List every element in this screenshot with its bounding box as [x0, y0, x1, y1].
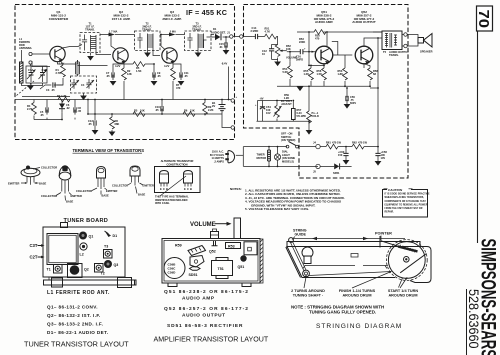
schematic chassis dashed border	[15, 5, 235, 140]
Q1 dot	[79, 232, 87, 240]
Q52 collector to T5	[364, 38, 382, 46]
svg-text:C59D: C59D	[168, 271, 177, 275]
svg-text:SD51: SD51	[333, 171, 340, 175]
svg-text:.05: .05	[78, 109, 82, 113]
diode D1 board symbol	[59, 100, 70, 113]
svg-text:470 1W: 470 1W	[332, 141, 341, 145]
svg-text:CONSTRUCTION: CONSTRUCTION	[167, 162, 188, 166]
detector return vertical	[228, 67, 230, 100]
electrolytic C54	[255, 101, 271, 122]
T3 resonating capacitor	[187, 33, 192, 49]
AC plug	[225, 151, 243, 163]
svg-text:NOTES:: NOTES:	[230, 187, 242, 191]
antenna coil L1	[21, 50, 23, 62]
resistor R51	[265, 27, 278, 45]
svg-text:TUNING GANG FULLY OPENED.: TUNING GANG FULLY OPENED.	[309, 310, 376, 315]
svg-text:STRINGING DIAGRAM: STRINGING DIAGRAM	[316, 323, 402, 330]
string line with arrows	[293, 238, 405, 240]
svg-text:(ON TIMER): (ON TIMER)	[281, 138, 296, 142]
wire J1 to J51	[233, 36, 252, 38]
transistor view 4	[112, 166, 154, 197]
drum dashed circle	[386, 240, 427, 281]
svg-text:TUNER BOARD: TUNER BOARD	[64, 218, 109, 224]
svg-text:COLLECTOR: COLLECTOR	[41, 194, 57, 198]
board top tab	[61, 223, 68, 228]
bias feed vertical	[308, 32, 310, 65]
drum solid circle	[388, 242, 425, 279]
power rail top	[320, 146, 326, 148]
transistor Q1	[50, 46, 65, 62]
svg-text:2ND I.F. AMP.: 2ND I.F. AMP.	[162, 17, 181, 21]
main ground	[308, 121, 310, 130]
wire battery to terminal	[215, 100, 231, 128]
T51 transformer	[212, 258, 233, 279]
svg-text:.05: .05	[40, 113, 44, 117]
svg-text:C1B: C1B	[42, 68, 47, 72]
pointer marker	[379, 236, 381, 248]
chassis bottom detail	[303, 266, 388, 269]
T2 secondary to Q3	[153, 48, 160, 56]
svg-text:B: B	[190, 187, 192, 191]
T3 stub ground	[197, 48, 199, 53]
keyhole	[302, 247, 313, 258]
tuning capacitor C1B	[39, 67, 48, 83]
capacitor C56	[344, 87, 357, 109]
svg-text:528.63660: 528.63660	[466, 289, 482, 348]
ground bus junction	[87, 100, 89, 115]
svg-text:1ST I.F. AMP.: 1ST I.F. AMP.	[112, 17, 131, 21]
svg-text:C: C	[187, 187, 189, 191]
base wire with C16	[287, 51, 316, 53]
T1 secondary out	[96, 51, 111, 55]
svg-text:.05: .05	[184, 74, 188, 78]
terminal J51	[240, 35, 243, 38]
T2 stub ground	[147, 48, 149, 53]
svg-text:IF = 455 KC: IF = 455 KC	[186, 8, 227, 17]
page number 70 box	[475, 6, 492, 31]
svg-text:COLLECTOR: COLLECTOR	[41, 166, 57, 170]
ground volume	[272, 60, 278, 62]
svg-text:E: E	[184, 187, 186, 191]
resistor R61	[326, 141, 346, 150]
speaker terminals	[404, 33, 407, 36]
electrolytic C58	[375, 146, 388, 166]
svg-text:R5: R5	[134, 109, 138, 113]
L2 coil	[80, 243, 87, 250]
chassis outline	[286, 247, 395, 278]
svg-text:R59: R59	[175, 244, 182, 248]
svg-text:2.7K: 2.7K	[27, 107, 33, 111]
rule under catalog number	[466, 289, 468, 355]
svg-text:BASE: BASE	[138, 193, 145, 197]
gang line horizontal	[22, 96, 70, 98]
alt transistor B	[184, 171, 193, 192]
svg-text:T2: T2	[101, 272, 105, 276]
svg-text:AUDIO DET.: AUDIO DET.	[211, 31, 226, 35]
svg-text:.05: .05	[155, 108, 159, 112]
tuner board outline	[43, 227, 125, 277]
svg-text:CAUTION: CAUTION	[388, 188, 403, 192]
svg-text:.5 MA: .5 MA	[169, 30, 176, 34]
svg-text:MODELS): MODELS)	[282, 159, 294, 163]
rectifier SD51	[320, 163, 351, 175]
R55A emitter branch	[304, 65, 314, 87]
battery B1	[212, 99, 226, 114]
supply rail	[100, 34, 214, 36]
tuning gang	[47, 234, 78, 265]
tuner lower: bus line	[15, 99, 229, 101]
svg-text:EMITTER: EMITTER	[71, 194, 83, 198]
Q2 dot	[70, 265, 80, 275]
amplifier chassis dashed border	[244, 5, 409, 179]
svg-text:5. VOLTAGE TOLERANCE MAY VARY: 5. VOLTAGE TOLERANCE MAY VARY ±10%.	[245, 207, 309, 211]
capacitor C7	[106, 64, 118, 86]
svg-text:Q1– 86-131-2 CONV.: Q1– 86-131-2 CONV.	[47, 305, 98, 310]
svg-text:AUDIO OUTPUT: AUDIO OUTPUT	[182, 313, 226, 319]
R57 wirewound resistor	[292, 100, 307, 122]
svg-text:4.2V: 4.2V	[164, 64, 170, 68]
svg-text:70: 70	[475, 10, 491, 29]
svg-text:-9V: -9V	[260, 97, 264, 101]
heatsink polygon	[190, 256, 204, 268]
current arrow .5 MA	[169, 33, 176, 37]
svg-text:TERMINAL VIEW OF TRANSISTOR: TERMINAL VIEW OF TRANSISTORS	[73, 148, 145, 153]
resistor R1	[54, 61, 65, 86]
ferrite rod	[44, 277, 137, 288]
svg-text:12K: 12K	[127, 72, 132, 76]
resistor R2	[122, 62, 132, 100]
board feet	[168, 283, 251, 287]
svg-text:AROUND DRUM: AROUND DRUM	[388, 294, 417, 298]
power terminals	[316, 144, 320, 148]
svg-text:R53: R53	[228, 245, 235, 249]
T2 dashed box	[135, 31, 161, 51]
resistor R3 on bus	[57, 94, 70, 102]
svg-text:AMPLIFIER TRANSISTOR LAYOUT: AMPLIFIER TRANSISTOR LAYOUT	[154, 336, 269, 344]
svg-text:Q3– 86-133-2 2ND. I.F.: Q3– 86-133-2 2ND. I.F.	[47, 322, 103, 327]
SD51 diode	[189, 267, 201, 277]
electrolytic C60	[338, 146, 349, 165]
svg-text:WHEN REPLACING TRANSISTORS,: WHEN REPLACING TRANSISTORS,	[385, 196, 425, 199]
wire AGC lower joins	[34, 113, 75, 120]
T2 coil	[148, 34, 154, 49]
svg-text:1.5K: 1.5K	[317, 72, 323, 76]
svg-text:R6: R6	[184, 109, 188, 113]
svg-text:FROM THE UNIT UNDER TEST OR: FROM THE UNIT UNDER TEST OR	[385, 208, 423, 210]
svg-text:AUDIO AMP: AUDIO AMP	[182, 296, 215, 302]
pilot lamp resistance PL1	[307, 85, 319, 124]
dial lamp	[274, 146, 295, 168]
svg-text:Q51: Q51	[238, 265, 245, 269]
svg-text:5% WW: 5% WW	[297, 114, 307, 118]
svg-text:COLLECTOR: COLLECTOR	[112, 184, 128, 188]
svg-text:POINTER: POINTER	[375, 232, 392, 236]
interstage coupling	[332, 42, 353, 56]
emitter line	[309, 64, 324, 66]
svg-text:Q52: Q52	[209, 250, 216, 254]
svg-text:SPEAKER: SPEAKER	[420, 50, 433, 54]
svg-text:C1A: C1A	[28, 68, 33, 72]
tuning shaft	[303, 270, 310, 277]
svg-text:T1: T1	[47, 268, 51, 272]
svg-text:EMITTER: EMITTER	[143, 184, 155, 188]
resistor R62	[346, 141, 378, 150]
sidebar rule	[477, 30, 479, 243]
capacitor C11	[173, 62, 189, 86]
lower tie line	[257, 120, 310, 122]
T3 coil	[198, 34, 204, 49]
T1 can	[47, 265, 63, 274]
dial bar	[287, 242, 420, 247]
tuning capacitor C1A	[27, 67, 36, 83]
svg-text:10K: 10K	[140, 109, 145, 113]
R59 hatched resistor	[188, 246, 206, 256]
resistor R5	[118, 62, 154, 73]
resistor R55 on rail	[314, 30, 326, 41]
R54 divider	[283, 51, 293, 87]
capacitor C9	[151, 63, 162, 86]
svg-text:TRANS.: TRANS.	[389, 53, 399, 57]
svg-text:AUDIO OUTPUT: AUDIO OUTPUT	[352, 20, 376, 24]
svg-text:Q3: Q3	[114, 263, 119, 267]
capacitor C8	[74, 100, 82, 115]
emitter bypass rail	[277, 85, 370, 87]
svg-text:IT IS GOOD SOUND SERVICE PRACT: IT IS GOOD SOUND SERVICE PRACTICE	[385, 193, 431, 196]
transistor Q51	[315, 46, 333, 64]
svg-text:COLLECTOR: COLLECTOR	[76, 189, 92, 193]
svg-text:470: 470	[176, 86, 181, 90]
C59 can	[164, 258, 185, 279]
base bias R57	[338, 55, 348, 87]
capacitor C14	[251, 26, 265, 39]
svg-text:L2: L2	[80, 253, 84, 257]
capacitor C13	[88, 99, 98, 135]
transistor view 2	[41, 165, 82, 203]
R53 boxed	[226, 243, 241, 249]
svg-text:BASE: BASE	[39, 182, 46, 186]
svg-text:Q2– 86-132-2 IST. I.F.: Q2– 86-132-2 IST. I.F.	[47, 313, 101, 318]
svg-text:BASE: BASE	[66, 200, 73, 204]
svg-text:-8.4V: -8.4V	[221, 62, 227, 66]
svg-text:INTO CASE.: INTO CASE.	[155, 201, 170, 205]
svg-text:TRANS.: TRANS.	[85, 28, 95, 32]
T2 can	[95, 264, 105, 276]
svg-text:R62: R62	[352, 141, 357, 145]
svg-text:START 1/4 TURN: START 1/4 TURN	[388, 289, 419, 293]
transistor Q2	[113, 48, 128, 64]
svg-text:470: 470	[315, 37, 320, 41]
svg-text:EQUIPMENT TO REMOVE ALL POWER: EQUIPMENT TO REMOVE ALL POWER	[385, 203, 428, 206]
svg-text:EMITTER: EMITTER	[106, 189, 118, 193]
svg-text:.05: .05	[51, 88, 55, 92]
svg-text:VOLUME: VOLUME	[190, 222, 216, 228]
svg-text:C3T: C3T	[30, 243, 38, 248]
svg-text:Q2: Q2	[84, 268, 89, 272]
svg-text:AUDIO AMP.: AUDIO AMP.	[315, 20, 333, 24]
svg-text:ADJUST: ADJUST	[281, 102, 292, 106]
wire Q2 collector to rail	[111, 35, 116, 50]
svg-text:D1– 86-22-1 AUDIO DET.: D1– 86-22-1 AUDIO DET.	[47, 330, 108, 335]
D1 diode part	[105, 231, 118, 238]
svg-text:.01: .01	[219, 45, 223, 49]
svg-text:SD51: SD51	[189, 273, 198, 277]
drum hub	[404, 257, 410, 263]
resistor R5A on lower rail	[133, 109, 145, 117]
svg-text:2MFD: 2MFD	[296, 58, 303, 62]
terminal J1	[230, 35, 233, 38]
pointer line in box	[160, 176, 186, 196]
T5 output transformer	[382, 31, 409, 57]
svg-text:220K: 220K	[299, 40, 305, 44]
tuning gang box	[26, 66, 47, 83]
svg-text:TUNING SHAFT ·: TUNING SHAFT ·	[293, 294, 324, 298]
right side plate	[410, 247, 431, 283]
antenna tap terminals	[29, 52, 32, 55]
wire Q3 collector to rail	[161, 35, 165, 50]
svg-text:.05: .05	[157, 74, 161, 78]
svg-text:C3: C3	[46, 88, 50, 92]
Q51 emitter resistor R56	[317, 64, 327, 87]
svg-text:E: E	[160, 187, 162, 191]
Q3 dot	[104, 260, 112, 268]
volume shaft	[234, 218, 241, 239]
svg-text:Q52 86-257-2 OR 86-177-2: Q52 86-257-2 OR 86-177-2	[164, 306, 249, 312]
oscillator trimmer box	[71, 76, 97, 93]
ground osc	[83, 93, 85, 96]
B+ drop wire	[377, 38, 379, 147]
T3 can	[104, 245, 113, 259]
capacitor C15	[219, 36, 229, 55]
R59 adjust resistor	[274, 100, 282, 122]
svg-text:2.7K: 2.7K	[56, 71, 62, 75]
gang mechanical link	[17, 81, 35, 96]
transistor view 3	[76, 167, 118, 198]
Q51 dot	[240, 255, 246, 261]
resistor R6 on lower rail	[183, 109, 195, 117]
svg-text:1.7 MA: 1.7 MA	[109, 30, 117, 34]
wire base Q1	[32, 53, 50, 55]
volume control R52	[275, 44, 297, 60]
drum string left exit	[381, 241, 398, 247]
alt transistor A	[160, 171, 169, 192]
svg-text:SD51 86-58-3 RECTIFIER: SD51 86-58-3 RECTIFIER	[167, 323, 243, 329]
T2 resonating capacitor	[137, 33, 142, 49]
svg-text:C2T: C2T	[30, 255, 38, 260]
svg-text:REPAIR.: REPAIR.	[385, 211, 395, 214]
svg-text:CONVERTER: CONVERTER	[49, 17, 69, 21]
string guide to shaft	[291, 242, 307, 272]
svg-text:D1: D1	[113, 234, 118, 238]
svg-text:AROUND DRUM: AROUND DRUM	[342, 294, 371, 298]
slot	[351, 254, 358, 258]
current arrow 1.7 MA	[109, 33, 116, 37]
svg-text:ANTENNA: ANTENNA	[19, 46, 32, 50]
transistor Q52	[355, 46, 373, 64]
T1 coil	[91, 35, 97, 51]
battery terminals	[231, 99, 234, 102]
Q52 mount on top edge	[211, 229, 219, 239]
resistor R4	[27, 100, 36, 120]
transistor Q3	[162, 48, 177, 64]
svg-text:.2 AMPS: .2 AMPS	[214, 159, 225, 163]
svg-text:5.6K: 5.6K	[283, 70, 289, 74]
T1 stub to ground	[90, 51, 92, 56]
transistor view 1 disc	[8, 166, 57, 186]
alternate construction box	[155, 167, 201, 193]
svg-text:15K: 15K	[190, 109, 195, 113]
svg-text:10V: 10V	[381, 156, 386, 160]
svg-text:4.7K: 4.7K	[265, 30, 271, 34]
resistor R8	[109, 113, 120, 136]
capacitor C10	[155, 99, 163, 115]
svg-text:C4: C4	[81, 83, 85, 87]
svg-text:T3: T3	[104, 245, 108, 249]
svg-text:GUIDE: GUIDE	[295, 233, 307, 237]
wire antenna to ground	[22, 64, 43, 85]
svg-text:R3 4.7K: R3 4.7K	[57, 94, 67, 98]
svg-text:9V: 9V	[212, 104, 215, 108]
svg-text:.02: .02	[66, 106, 70, 110]
speaker	[407, 34, 432, 54]
svg-text:1.5K: 1.5K	[136, 69, 142, 73]
Q2 pad	[68, 264, 83, 278]
wire rail into T5	[373, 31, 382, 33]
svg-text:600V: 600V	[350, 101, 356, 105]
T3 secondary out	[204, 40, 207, 48]
drum spring black bar	[398, 245, 418, 252]
Q51 collector riser	[326, 32, 328, 47]
svg-text:D1: D1	[213, 27, 217, 31]
svg-text:10V: 10V	[266, 111, 271, 115]
board side hatch	[260, 239, 263, 283]
capacitor C5	[40, 100, 48, 118]
timer loop	[243, 147, 318, 167]
emitter rail ground	[299, 85, 301, 87]
svg-text:COMPONENTS OR ATTACHING TEST: COMPONENTS OR ATTACHING TEST	[385, 200, 427, 203]
svg-text:.05: .05	[88, 122, 92, 126]
upper tie line	[258, 101, 293, 122]
amp board outline	[162, 239, 260, 284]
svg-text:L1 FERRITE ROD ANT.: L1 FERRITE ROD ANT.	[47, 290, 110, 296]
resistor R9	[203, 99, 214, 116]
capacitor C3	[40, 82, 63, 92]
svg-text:R61: R61	[326, 141, 331, 145]
svg-text:150: 150	[338, 153, 343, 157]
resistor R7	[171, 64, 181, 100]
svg-text:2 MFD: 2 MFD	[251, 29, 259, 33]
svg-text:COLD: COLD	[312, 114, 319, 118]
string shaft to drum	[309, 272, 391, 276]
svg-text:T51: T51	[218, 267, 224, 271]
svg-text:EMITTER: EMITTER	[8, 182, 20, 186]
drum string bottom exit	[399, 278, 403, 288]
lower rail	[88, 113, 215, 115]
svg-text:FINISH 1-1/4 TURNS: FINISH 1-1/4 TURNS	[339, 289, 376, 293]
svg-text:Q51 86-238-2 OR 86-175-2: Q51 86-238-2 OR 86-175-2	[164, 289, 249, 295]
bias junction	[308, 51, 310, 53]
svg-text:2.2K: 2.2K	[208, 108, 214, 112]
svg-text:68K: 68K	[115, 122, 120, 126]
svg-text:10K: 10K	[286, 47, 291, 51]
svg-text:C: C	[163, 187, 165, 191]
svg-text:MOTOR: MOTOR	[257, 156, 267, 160]
T1 resonating capacitor	[82, 35, 87, 51]
timer motor	[257, 146, 271, 168]
capacitor on Q52	[212, 241, 218, 246]
T1 dashed box	[80, 33, 100, 53]
supply rail amp	[297, 31, 382, 33]
wire Q1 collector to T1	[62, 45, 82, 49]
